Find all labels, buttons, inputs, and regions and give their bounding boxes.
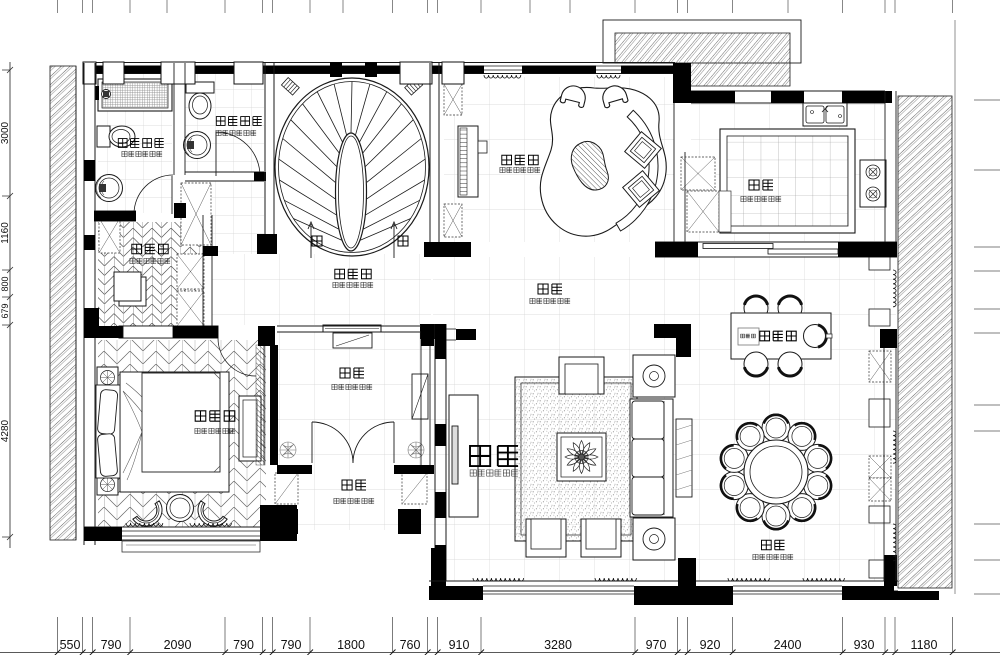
svg-text:2090: 2090: [164, 638, 192, 652]
television: [452, 426, 458, 484]
bedroom tub chair left: [133, 501, 168, 532]
bottom dimension line: [0, 652, 1000, 654]
double entry door arcs: [312, 422, 394, 463]
svg-text:3000: 3000: [0, 121, 11, 144]
stair east bottom pier: [424, 242, 471, 257]
label corridor: [538, 284, 562, 294]
elder bedroom herringbone floor: [98, 340, 266, 527]
leisure crescent bench: [616, 110, 658, 231]
breakfast chair right: [804, 325, 827, 348]
corridor south wall left stub: [420, 324, 440, 339]
svg-text:1160: 1160: [0, 222, 11, 244]
plant right of double door: [408, 442, 424, 458]
dressing room bottom wall: [119, 326, 218, 338]
left exterior hatched wall band: [50, 66, 76, 540]
leisure/kitchen dividing wall: [673, 101, 675, 242]
left wall piers: [84, 160, 95, 181]
label bathroom3: [118, 139, 163, 148]
floor tile grid main living/dining area: [433, 257, 896, 581]
dressing room east wall: [202, 215, 204, 326]
armchair bottom-left: [526, 519, 566, 557]
bottom wall window glazing: [483, 585, 634, 587]
staircase center ellipse: [336, 133, 367, 251]
entrance west wall: [263, 345, 265, 465]
entrance north wall line: [277, 325, 434, 327]
svg-text:1180: 1180: [911, 638, 938, 652]
medallion ornament: [565, 441, 598, 474]
svg-text:3280: 3280: [544, 638, 572, 652]
foyer shoe cabinet right: [402, 473, 427, 504]
dining table chairs ring: [720, 414, 832, 530]
leisure kidney table: [540, 87, 666, 236]
breakfast chairs top: [744, 296, 768, 320]
leisure cabinet x-box upper: [444, 84, 462, 115]
kitchen sink: [803, 103, 847, 126]
leisure piano: [458, 126, 487, 197]
porch step: [122, 541, 260, 552]
bathtub faucet: [95, 86, 99, 100]
foyer side piers: [275, 509, 298, 534]
washbasin bathroom3: [96, 175, 123, 202]
kitchen west pier: [673, 63, 691, 103]
bathroom3 bottom wall: [94, 210, 136, 212]
bedroom south windows: [122, 530, 260, 532]
leisure chair top-right: [600, 83, 628, 108]
bathroom3 door arc: [134, 175, 173, 214]
top wall window lines: [484, 65, 522, 67]
label entrance hall: [340, 368, 364, 378]
living west wall: [434, 324, 436, 581]
dressing wardrobe x-box upper: [177, 254, 204, 289]
stair landing hatch mark left: [281, 78, 299, 95]
svg-text:550: 550: [60, 638, 81, 652]
plant left of double door: [280, 442, 296, 458]
armchair bottom-right: [581, 519, 621, 557]
label dining room: [762, 540, 785, 550]
svg-text:930: 930: [854, 638, 875, 652]
leisure diamond chair lower: [623, 171, 660, 208]
entrance east wall: [420, 332, 422, 465]
entrance console shelf: [323, 325, 381, 332]
label bathroom2: [216, 117, 261, 126]
staircase outer ellipse: [275, 78, 429, 256]
entrance/foyer dividing wall: [277, 465, 312, 474]
label elder bedroom: [195, 411, 235, 421]
staircase treads: [279, 82, 425, 241]
bedroom north wall: [123, 326, 173, 338]
nightstand bottom: [97, 474, 118, 495]
svg-text:760: 760: [400, 638, 421, 652]
dining east wall: [883, 348, 885, 581]
label stair area: [335, 269, 371, 279]
stair landing hatch mark right: [405, 78, 423, 95]
side table with lamp top: [633, 355, 675, 397]
dining east pier: [880, 329, 897, 348]
top exterior wall lines: [84, 62, 675, 64]
entrance northwest pier: [258, 326, 275, 346]
armchair top: [559, 357, 604, 394]
tv cabinet: [449, 395, 478, 517]
leisure diamond chair upper: [625, 132, 662, 169]
bottom dimension extension lines: [58, 617, 953, 653]
svg-text:679: 679: [0, 303, 10, 318]
label kitchen: [749, 180, 773, 190]
left dimension line: [9, 62, 11, 548]
svg-text:970: 970: [646, 638, 667, 652]
sofa back console: [676, 419, 692, 497]
bathroom2 door arc: [216, 132, 260, 176]
leisure chair top-left: [560, 83, 588, 108]
washbasin bathroom2: [184, 132, 211, 159]
floor tile grid leisure area: [444, 77, 674, 242]
side table with lamp bottom: [633, 518, 675, 560]
svg-text:2400: 2400: [774, 638, 802, 652]
floor tile grid lobby nook: [205, 181, 264, 254]
bath2 bottom wall: [185, 171, 264, 173]
bottom wall window coils: [473, 578, 524, 581]
leisure cabinet x-box lower: [444, 204, 462, 237]
bottom dimension tick slashes: [55, 650, 956, 655]
floor tile grid corridor: [212, 254, 431, 325]
stair west pier: [257, 234, 277, 254]
bottom exterior wall: [429, 580, 898, 582]
dining table: [744, 440, 808, 504]
svg-text:910: 910: [449, 638, 470, 652]
top-right terrace outline: [603, 20, 801, 63]
foyer shoe cabinet left: [275, 473, 298, 504]
right wall window coils vertical: [893, 270, 896, 307]
bedroom tub chair right: [192, 501, 227, 532]
top-right terrace hatch: [615, 33, 790, 86]
kitchen sliding door: [703, 244, 773, 249]
label dressing room: [132, 244, 168, 254]
kitchen stove: [860, 160, 886, 207]
bedroom door arc: [218, 338, 256, 376]
label shang (up): [312, 236, 322, 246]
floor tile grid bathroom 3: [98, 73, 172, 213]
top wall black bar segments: [96, 66, 103, 74]
rug center medallion: [557, 433, 606, 481]
stair down arrow: [391, 222, 397, 258]
bathroom dividing wall bath3/bath2: [173, 63, 175, 175]
floor tile grid bathroom 2: [185, 73, 264, 172]
left exterior wall lines: [83, 63, 85, 545]
stair room east wall: [429, 63, 431, 242]
label foyer: [342, 480, 366, 490]
stair room west wall: [264, 63, 266, 254]
corridor south wall right L: [654, 324, 691, 338]
right edge ticks: [974, 100, 1000, 594]
top wall window coil left: [484, 75, 521, 78]
label xia (down): [398, 236, 408, 246]
bedroom round table: [167, 495, 194, 522]
svg-text:790: 790: [101, 638, 122, 652]
dressing sliding closet: [119, 277, 146, 306]
kitchen east wall: [884, 91, 886, 257]
sofa three-seat: [630, 399, 673, 517]
induction cooker box: [738, 328, 759, 345]
bathtub: [98, 79, 172, 111]
bed blanket: [142, 373, 220, 472]
kitchen island table: [720, 129, 855, 233]
bottom right black corner: [888, 591, 939, 600]
bed: [96, 372, 229, 492]
bedroom south wall: [84, 526, 297, 528]
kitchen top wall: [691, 90, 885, 92]
bottom-left vertical wall: [431, 548, 446, 591]
label living room: [470, 446, 518, 466]
svg-text:790: 790: [233, 638, 254, 652]
entrance closet right: [412, 374, 428, 419]
right exterior hatched band: [898, 96, 952, 588]
living room rug: [515, 377, 637, 541]
leisure kidney inner mat: [571, 141, 608, 190]
breakfast table: [731, 313, 831, 359]
bed end bench: [239, 396, 261, 461]
svg-text:920: 920: [700, 638, 721, 652]
floor tile grid entrance hall: [277, 332, 433, 530]
floor tile grid kitchen: [691, 103, 884, 241]
breakfast chairs bottom: [744, 352, 768, 376]
kitchen cabinet x-box lower: [687, 191, 719, 232]
svg-text:790: 790: [281, 638, 302, 652]
nightstand top: [97, 367, 118, 388]
svg-text:1800: 1800: [337, 638, 365, 652]
top wall window coil right: [597, 75, 620, 78]
label leisure area: [502, 155, 538, 165]
dressing nook tall x-box: [181, 183, 211, 245]
top edge ticks: [58, 0, 953, 13]
kitchen bottom wall: [655, 241, 897, 243]
kitchen cabinet x-box upper: [681, 157, 715, 190]
dressing cabinet top-left x-box: [99, 218, 120, 253]
toilet bathroom2: [186, 82, 214, 119]
entrance mirror box: [333, 333, 372, 348]
right wall cabinet run: [869, 255, 891, 578]
svg-text:800: 800: [0, 276, 10, 291]
dressing wardrobe x-box lower: [177, 291, 204, 326]
top wall white pier boxes: [83, 62, 96, 84]
label breakfast area: [760, 331, 796, 341]
top wall small black piers: [330, 62, 342, 77]
svg-text:4280: 4280: [0, 419, 11, 442]
toilet bathroom3: [97, 126, 135, 147]
stair up arrow: [308, 222, 314, 258]
dressing room herringbone floor: [98, 222, 203, 326]
